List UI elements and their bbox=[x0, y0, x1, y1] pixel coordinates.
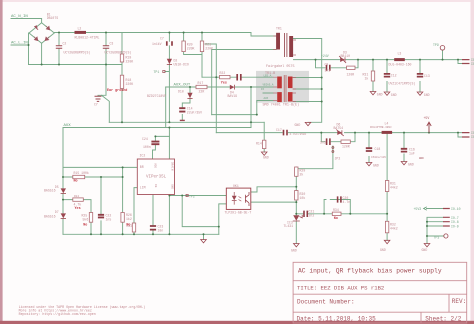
svg-text:DRAIN: DRAIN bbox=[171, 162, 174, 171]
svg-text:REV:: REV: bbox=[452, 298, 466, 305]
svg-text:IO-10: IO-10 bbox=[451, 207, 461, 211]
svg-text:Yes: Yes bbox=[75, 207, 81, 211]
svg-text:No: No bbox=[83, 223, 87, 227]
svg-text:BB110: BB110 bbox=[341, 54, 351, 58]
svg-text:GND: GND bbox=[419, 157, 424, 160]
svg-text:1k2: 1k2 bbox=[126, 217, 132, 221]
svg-text:Repository: https://github.com: Repository: https://github.com/eez-open bbox=[19, 312, 96, 316]
svg-text:C13: C13 bbox=[424, 74, 430, 78]
svg-text:22uF/35V: 22uF/35V bbox=[187, 110, 202, 114]
svg-text:1n1kV: 1n1kV bbox=[152, 42, 162, 46]
svg-text:Document Number:: Document Number: bbox=[297, 298, 355, 305]
svg-text:R15 100k: R15 100k bbox=[74, 171, 89, 175]
svg-text:No: No bbox=[74, 180, 78, 184]
svg-text:TP1: TP1 bbox=[154, 70, 160, 74]
svg-text:UCY2G6R8MPD(S): UCY2G6R8MPD(S) bbox=[64, 51, 91, 55]
svg-text:GND: GND bbox=[424, 93, 430, 97]
svg-text:TP9: TP9 bbox=[433, 43, 439, 47]
svg-text:BR: BR bbox=[140, 165, 144, 169]
svg-text:R34: R34 bbox=[333, 208, 339, 212]
svg-text:+5V: +5V bbox=[424, 116, 430, 120]
svg-text:D10: D10 bbox=[178, 90, 184, 94]
svg-text:BAS516: BAS516 bbox=[44, 189, 56, 193]
svg-text:4.7k: 4.7k bbox=[74, 203, 82, 207]
svg-text:120R: 120R bbox=[342, 144, 350, 148]
svg-text:BAS516: BAS516 bbox=[44, 215, 56, 219]
svg-text:TL431: TL431 bbox=[284, 224, 294, 228]
svg-text:GND: GND bbox=[391, 93, 397, 97]
svg-text:44k2: 44k2 bbox=[390, 227, 398, 231]
svg-text:UVZ1C471MPD(S): UVZ1C471MPD(S) bbox=[389, 82, 416, 86]
svg-text:R24: R24 bbox=[74, 195, 79, 198]
svg-text:L2: L2 bbox=[78, 27, 82, 31]
svg-text:GND: GND bbox=[291, 249, 297, 253]
svg-text:2n2: 2n2 bbox=[309, 213, 315, 217]
svg-text:Yes: Yes bbox=[221, 81, 227, 85]
svg-text:C18: C18 bbox=[375, 147, 381, 151]
svg-text:L3: L3 bbox=[398, 52, 402, 56]
svg-text:VBIAS_A: VBIAS_A bbox=[263, 83, 274, 86]
svg-text:L4: L4 bbox=[385, 122, 389, 126]
svg-text:TP3: TP3 bbox=[434, 236, 440, 240]
svg-text:220K: 220K bbox=[205, 46, 213, 50]
svg-text:C7: C7 bbox=[160, 37, 164, 41]
svg-text:BAT54: BAT54 bbox=[334, 126, 344, 130]
svg-text:AUX_OUT: AUX_OUT bbox=[174, 84, 191, 88]
svg-text:CY: CY bbox=[94, 103, 98, 107]
svg-text:VDD: VDD bbox=[154, 163, 157, 168]
svg-text:GND: GND bbox=[408, 163, 414, 167]
svg-text:GND: GND bbox=[373, 164, 379, 168]
svg-text:4.7uF/250F: 4.7uF/250F bbox=[290, 132, 307, 136]
svg-text:22R: 22R bbox=[199, 90, 205, 94]
svg-text:RCH4PTMB-3R0C: RCH4PTMB-3R0C bbox=[370, 126, 392, 129]
svg-text:220K: 220K bbox=[187, 46, 195, 50]
svg-text:+5V3: +5V3 bbox=[414, 207, 422, 211]
svg-text:220K: 220K bbox=[126, 59, 134, 63]
svg-text:Fairgabel 0575: Fairgabel 0575 bbox=[266, 64, 295, 69]
svg-text:1uF: 1uF bbox=[409, 152, 415, 156]
svg-text:C17: C17 bbox=[276, 128, 282, 132]
svg-text:AUX: AUX bbox=[264, 97, 269, 100]
svg-text:1n5: 1n5 bbox=[106, 218, 112, 222]
svg-text:C8: C8 bbox=[325, 62, 329, 66]
svg-text:BAV19: BAV19 bbox=[228, 94, 238, 98]
svg-text:C12: C12 bbox=[391, 74, 397, 78]
svg-text:JP2: JP2 bbox=[335, 157, 341, 161]
svg-text:FB: FB bbox=[154, 184, 157, 188]
svg-text:RLB0812-4T1ML: RLB0812-4T1ML bbox=[75, 35, 100, 39]
svg-text:BZD27C18VP: BZD27C18VP bbox=[147, 94, 166, 98]
svg-text:Date: 5.11.2018, 10:35: Date: 5.11.2018, 10:35 bbox=[297, 315, 377, 322]
svg-text:R22: R22 bbox=[220, 71, 226, 75]
svg-text:GND: GND bbox=[295, 123, 301, 127]
svg-text:120R: 120R bbox=[347, 73, 355, 77]
svg-text:IO-7: IO-7 bbox=[451, 216, 459, 220]
svg-text:1k: 1k bbox=[365, 77, 369, 81]
svg-text:10k: 10k bbox=[300, 196, 306, 200]
svg-text:DLG-0403-160: DLG-0403-160 bbox=[389, 63, 412, 67]
svg-text:3n3: 3n3 bbox=[320, 141, 326, 145]
svg-text:R14: R14 bbox=[256, 142, 262, 146]
svg-text:TP2: TP2 bbox=[189, 194, 195, 198]
svg-text:TR1-B: TR1-B bbox=[265, 72, 275, 76]
svg-text:LIM: LIM bbox=[140, 186, 146, 190]
svg-text:Sheet: 2/2: Sheet: 2/2 bbox=[425, 315, 461, 322]
svg-text:GND: GND bbox=[171, 184, 174, 189]
svg-text:Ear ground: Ear ground bbox=[107, 88, 127, 93]
svg-text:R17: R17 bbox=[198, 81, 204, 85]
svg-text:AUX: AUX bbox=[64, 124, 72, 128]
svg-text:C3: C3 bbox=[110, 41, 114, 45]
svg-text:TITLE: EEZ DIB AUX PS r1B2: TITLE: EEZ DIB AUX PS r1B2 bbox=[297, 285, 384, 292]
svg-text:SMD 74001 TR1-B(E): SMD 74001 TR1-B(E) bbox=[263, 102, 300, 107]
svg-text:TLP291-GB-SE-T: TLP291-GB-SE-T bbox=[225, 211, 252, 215]
svg-text:GND: GND bbox=[380, 248, 386, 252]
svg-text:OK1: OK1 bbox=[233, 184, 239, 188]
svg-text:C2: C2 bbox=[63, 41, 67, 45]
svg-text:AC input, QR flyback bias powe: AC input, QR flyback bias power supply bbox=[298, 268, 442, 275]
svg-text:1500u/10V: 1500u/10V bbox=[371, 155, 386, 159]
svg-text:C24: C24 bbox=[142, 137, 148, 141]
svg-text:UCY2G6R8MPD(S): UCY2G6R8MPD(S) bbox=[105, 51, 132, 55]
svg-text:15: 15 bbox=[261, 88, 265, 91]
svg-text:220K: 220K bbox=[126, 82, 134, 86]
svg-text:DB107S: DB107S bbox=[47, 16, 59, 20]
svg-text:GND: GND bbox=[422, 248, 428, 252]
svg-text:5k6: 5k6 bbox=[83, 218, 89, 222]
svg-text:100n: 100n bbox=[143, 145, 151, 149]
svg-text:VIPer35L: VIPer35L bbox=[146, 176, 167, 180]
svg-text:US1K-DIO: US1K-DIO bbox=[174, 63, 189, 67]
svg-text:IO-9: IO-9 bbox=[451, 225, 459, 229]
svg-text:44k2: 44k2 bbox=[390, 186, 398, 190]
svg-text:2k: 2k bbox=[300, 173, 304, 177]
svg-text:GND: GND bbox=[377, 93, 383, 97]
svg-text:AC_L_IN: AC_L_IN bbox=[11, 42, 28, 46]
svg-text:No: No bbox=[126, 223, 130, 227]
svg-text:10n: 10n bbox=[158, 228, 164, 232]
svg-text:IC2: IC2 bbox=[140, 154, 146, 158]
svg-text:TR1: TR1 bbox=[276, 27, 282, 31]
svg-text:No: No bbox=[334, 217, 338, 221]
svg-text:+24V: +24V bbox=[321, 54, 329, 58]
svg-text:AC_N_IN: AC_N_IN bbox=[11, 15, 28, 19]
svg-text:D7: D7 bbox=[55, 210, 59, 214]
svg-text:4.7n: 4.7n bbox=[343, 200, 351, 204]
svg-text:3n3: 3n3 bbox=[325, 68, 331, 72]
svg-text:GND: GND bbox=[263, 156, 269, 160]
svg-text:IO-8: IO-8 bbox=[451, 220, 459, 224]
